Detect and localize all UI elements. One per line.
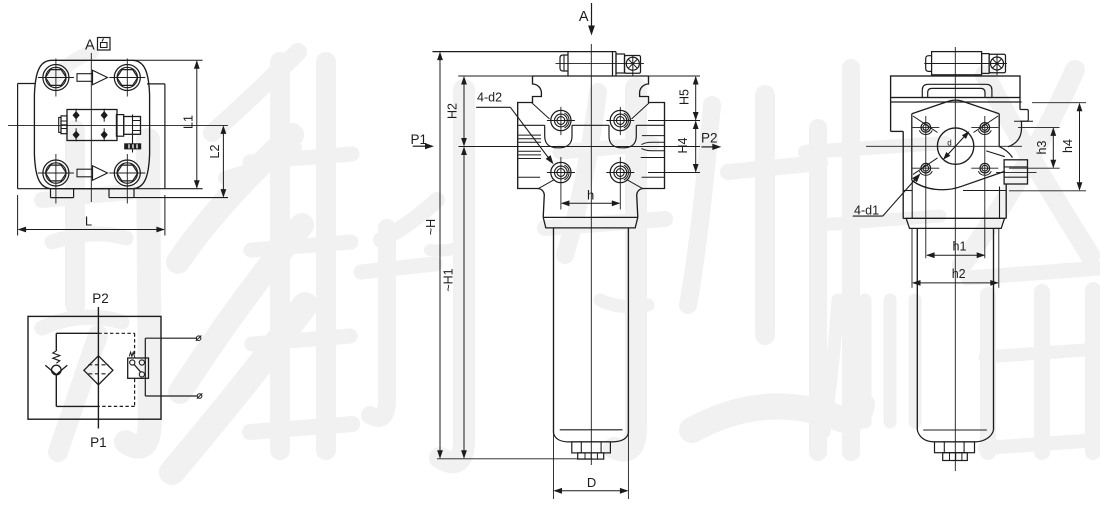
bolt hole 4 (top view) with hex socket bbox=[109, 154, 145, 204]
wire: top branch to bypass valve bbox=[56, 333, 98, 351]
vertical centerline of side view bbox=[954, 47, 956, 471]
hydraulic schematic: enclosure box bbox=[28, 316, 161, 419]
filter bowl (front view) with D extension lines bbox=[554, 228, 629, 499]
mounting bolt hole 4-d2 #3 (front view) bbox=[547, 157, 575, 210]
vertical centerline of top view bbox=[90, 53, 92, 202]
label 4-d2 with leader arrow bbox=[476, 91, 553, 165]
dimension L1 (vertical, right of top view) bbox=[132, 60, 203, 188]
main line P2 to P1 (vertical) bbox=[97, 307, 99, 429]
watermark (decorative, light gray brush strokes) bbox=[42, 52, 1100, 472]
mounting bolt hole 4-d1 #1 (side view) bbox=[912, 123, 939, 135]
bowl flange (front view) bbox=[543, 217, 638, 228]
bowl bottom cap (side view) bbox=[917, 430, 993, 442]
terminal symbol bottom bbox=[197, 393, 203, 398]
bowl flange (side view) bbox=[906, 218, 1004, 228]
flow direction arrow symbol (top view) bbox=[77, 70, 108, 84]
svg-text:A: A bbox=[85, 38, 95, 54]
wire: electric connection lines to terminals bbox=[145, 338, 197, 396]
mounting bolt hole 4-d2 #4 (front view) bbox=[606, 157, 634, 210]
head cover plate (side view) bbox=[891, 76, 1020, 98]
mounting bolt hole 4-d2 #2 (front view) bbox=[606, 107, 634, 135]
mounting plate right edge behind body bbox=[147, 84, 165, 189]
dimension h3 bbox=[1009, 127, 1060, 168]
indicator switch contacts bbox=[130, 360, 145, 377]
side port centerline bbox=[996, 171, 1037, 173]
dimension h1 bbox=[926, 240, 985, 259]
indicator left cap (side view) bbox=[926, 56, 932, 72]
port centerline P1-P2 (horizontal) bbox=[459, 146, 701, 148]
svg-text:h4: h4 bbox=[1061, 139, 1075, 153]
bolt hole 1 (top view) with hex socket bbox=[38, 59, 74, 97]
dimension H2 (left) bbox=[446, 76, 467, 147]
pressure indicator body (side view) bbox=[932, 52, 982, 75]
body bottom line with feet bbox=[18, 189, 228, 198]
dashed sensing line (right bypass path) bbox=[98, 333, 134, 406]
ledge line across head bbox=[518, 124, 664, 126]
mounting bolt hole 4-d1 #3 (side view) bbox=[912, 163, 939, 175]
dimension D (bottom) bbox=[554, 475, 629, 494]
head block left profile (side view) bbox=[891, 98, 904, 219]
svg-text:H2: H2 bbox=[446, 103, 460, 119]
electric connector on valve block (top view) bbox=[116, 115, 140, 153]
svg-text:D: D bbox=[587, 475, 596, 490]
svg-text:A: A bbox=[579, 9, 589, 25]
drain plug (front view) bbox=[572, 442, 611, 459]
indicator valve block (top view) bbox=[67, 109, 117, 142]
indicator left end cap bbox=[560, 55, 568, 71]
label 4-d1 with leader arrow bbox=[853, 173, 921, 217]
rib lines on head right side bbox=[641, 136, 665, 178]
svg-text:h: h bbox=[587, 188, 594, 203]
svg-text:P2: P2 bbox=[701, 131, 718, 146]
side port boss (side view) bbox=[1004, 160, 1027, 184]
svg-text:~H: ~H bbox=[424, 219, 438, 235]
rib lines on head left side bbox=[518, 135, 541, 177]
head block bottom edge (side view) bbox=[903, 217, 1006, 219]
indicator centerline (side view) bbox=[924, 63, 1007, 65]
dimension ~H1 (left) bbox=[442, 147, 467, 459]
svg-text:P2: P2 bbox=[92, 291, 109, 306]
filter element symbol (diamond) bbox=[84, 356, 113, 385]
filter head body outline (top view barrel shape) bbox=[34, 60, 149, 188]
svg-text:H4: H4 bbox=[676, 137, 690, 153]
section arrow A (top of front view) bbox=[579, 3, 595, 36]
indicator spring mark bbox=[129, 352, 134, 356]
dimension h2 bbox=[912, 267, 999, 286]
svg-text:h2: h2 bbox=[952, 267, 966, 281]
filter head outline left side (front view) bbox=[518, 76, 545, 217]
bowl bottom cap (front view) bbox=[554, 430, 629, 442]
svg-text:4-d1: 4-d1 bbox=[854, 204, 879, 218]
h2 extension lines bbox=[912, 229, 999, 288]
bolt hole 2 (top view) with hex socket bbox=[109, 59, 145, 97]
head block top face line bbox=[891, 101, 1022, 103]
flow direction arrow symbol (top view) bbox=[77, 166, 108, 180]
ribbed plug under connector bbox=[125, 144, 141, 149]
svg-text:4-d2: 4-d2 bbox=[477, 91, 502, 105]
block side faces below plate bbox=[912, 182, 999, 219]
chamfer diagonals near holes (front view) bbox=[532, 103, 650, 189]
port P2 label bbox=[92, 291, 109, 306]
dimension H5 (right) bbox=[648, 76, 700, 121]
mounting bolt hole 4-d1 #2 (side view) bbox=[971, 123, 998, 135]
indicator connector neck bbox=[616, 54, 625, 73]
vertical centerline of front view bbox=[590, 44, 592, 465]
dimension ~H (far left) bbox=[424, 52, 560, 459]
bolt hole 3 (top view) with hex socket bbox=[38, 154, 74, 204]
dimension h4 bbox=[1009, 103, 1086, 191]
mounting plate left edge behind body bbox=[18, 84, 35, 189]
dimension L (horizontal, below top view) bbox=[18, 195, 165, 236]
svg-text:L2: L2 bbox=[208, 145, 222, 159]
head block right profile with tab and fillets (side view) bbox=[986, 98, 1033, 158]
horizontal centerline of top view (extends right as L2 extension) bbox=[8, 124, 228, 126]
svg-text:d: d bbox=[947, 139, 951, 148]
port P2 label and arrow bbox=[701, 131, 721, 151]
dimension h (bolt spacing, front view) bbox=[561, 188, 620, 207]
port cone lines right side bbox=[642, 142, 665, 150]
bolt hole column centerlines (side view) bbox=[926, 116, 985, 258]
terminal symbol top bbox=[196, 336, 202, 341]
port diameter arrow bbox=[943, 131, 969, 160]
dimension H4 (right) bbox=[648, 121, 700, 173]
bypass check valve (ball in seat) bbox=[45, 365, 67, 375]
filter head top edge (front view) with extension lines bbox=[458, 75, 700, 77]
svg-text:h3: h3 bbox=[1035, 141, 1049, 155]
svg-text:P1: P1 bbox=[411, 132, 428, 147]
shoulder line behind mounting plate bbox=[903, 190, 1006, 192]
head block lower right edge bbox=[1005, 184, 1007, 218]
drain plug (side view) bbox=[935, 442, 975, 461]
valve block left nub bbox=[59, 116, 67, 134]
dimension L2 (vertical) bbox=[208, 125, 226, 197]
wire: bypass valve to bottom branch bbox=[56, 375, 98, 407]
svg-text:~H1: ~H1 bbox=[442, 268, 456, 291]
svg-text:L1: L1 bbox=[182, 115, 196, 129]
indicator electric connector with socket circle bbox=[625, 56, 641, 76]
port horizontal centerline (side view) bbox=[866, 145, 1022, 147]
pocket under upper-left bolt hole bbox=[545, 125, 572, 148]
pressure indicator body (front view, horizontal cylinder) bbox=[433, 52, 617, 76]
indicator link piece bbox=[982, 54, 990, 74]
bypass check valve spring bbox=[53, 351, 60, 363]
port P1 label and arrow bbox=[411, 132, 435, 149]
mounting bolt hole 4-d2 #1 (front view) bbox=[547, 107, 575, 135]
mounting bolt hole 4-d1 #4 (side view) bbox=[971, 163, 998, 175]
port P1 label bbox=[90, 435, 107, 450]
view label A (A-direction view marker) bbox=[85, 38, 110, 54]
differential pressure indicator box bbox=[128, 358, 149, 378]
bottom extension line for H dims bbox=[437, 458, 593, 460]
indicator electric connector (side view) bbox=[989, 54, 1005, 75]
mounting plate outline (side view) bbox=[912, 100, 1005, 190]
indicator horizontal centerline bbox=[556, 63, 645, 65]
pocket under upper-right bolt hole bbox=[609, 125, 636, 148]
svg-text:H5: H5 bbox=[678, 89, 692, 105]
svg-text:L: L bbox=[85, 214, 92, 229]
filter bowl (side view) bbox=[917, 229, 993, 430]
filter head outline right side (front view) bbox=[637, 76, 665, 217]
plate chamfer diagonals bbox=[913, 116, 998, 174]
central port circle (side view) bbox=[937, 128, 973, 164]
svg-text:h1: h1 bbox=[953, 240, 967, 254]
svg-text:P1: P1 bbox=[90, 435, 107, 450]
